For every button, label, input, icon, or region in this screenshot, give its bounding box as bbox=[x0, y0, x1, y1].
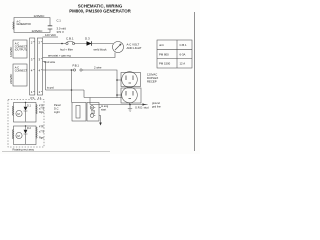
svg-text:(OUTPUT): (OUTPUT) bbox=[15, 49, 27, 52]
svg-text:Panel: Panel bbox=[54, 103, 61, 107]
exciter rect (upper) bbox=[14, 103, 37, 123]
ground bbox=[128, 105, 132, 112]
wire W5 (ground bus) bbox=[90, 98, 146, 105]
box A-C connect (lower) bbox=[13, 64, 27, 86]
border bottom faint bbox=[2, 151, 110, 153]
svg-text:weld block: weld block bbox=[94, 48, 108, 52]
winding left (upper) bbox=[12, 106, 13, 116]
generator stator box G1 bbox=[14, 18, 50, 33]
label C1 value bbox=[57, 19, 67, 34]
connector P1 strip bbox=[30, 38, 35, 95]
svg-text:P.B.1: P.B.1 bbox=[73, 64, 80, 68]
svg-text:2 wire: 2 wire bbox=[94, 66, 102, 70]
svg-text:370 V: 370 V bbox=[57, 30, 64, 34]
winding right F2 bbox=[36, 127, 37, 138]
rotating assy dashed box bbox=[8, 100, 44, 148]
svg-text:C.B.1: C.B.1 bbox=[180, 43, 187, 47]
receptacle outlet bottom bbox=[122, 87, 138, 103]
svg-text:RECEP: RECEP bbox=[147, 80, 157, 84]
label idle box bbox=[54, 103, 61, 114]
junction bbox=[71, 69, 73, 71]
svg-text:G.R.D. stud: G.R.D. stud bbox=[135, 105, 149, 109]
outlet ground stub bbox=[129, 103, 131, 105]
svg-text:Rgw: Rgw bbox=[39, 111, 44, 114]
svg-text:Light: Light bbox=[54, 110, 60, 114]
idle control box bbox=[72, 103, 86, 122]
svg-text:120VAC: 120VAC bbox=[34, 14, 46, 18]
border right bbox=[194, 12, 196, 151]
wire W1 main hot bbox=[43, 43, 114, 45]
winding left (lower) bbox=[12, 130, 13, 139]
svg-text:Rotating rect assy: Rotating rect assy bbox=[13, 147, 35, 151]
generator winding (left edge) bbox=[13, 22, 14, 30]
svg-text:PM 800: PM 800 bbox=[159, 52, 169, 56]
connector J1 strip bbox=[37, 38, 42, 95]
winding right F1 bbox=[36, 105, 37, 115]
wire W2 (J1 pin3 to voltmeter) bbox=[43, 53, 116, 58]
svg-text:GENERATOR: GENERATOR bbox=[17, 23, 32, 26]
wire W3 (J1 pin4 to outlet feeder) bbox=[43, 70, 118, 98]
label right of connector bbox=[101, 104, 109, 112]
svg-text:A-C: A-C bbox=[17, 20, 21, 23]
svg-text:gnd line: gnd line bbox=[152, 105, 161, 108]
svg-text:12 A: 12 A bbox=[180, 62, 186, 66]
svg-text:C.B.1: C.B.1 bbox=[66, 37, 74, 41]
svg-text:PM800, PM1500 GENERATOR: PM800, PM1500 GENERATOR bbox=[69, 9, 131, 14]
svg-text:240VAC: 240VAC bbox=[9, 74, 13, 84]
svg-text:AND LIGHT: AND LIGHT bbox=[127, 46, 142, 50]
table bbox=[157, 40, 192, 68]
svg-text:aerostat + gas reg: aerostat + gas reg bbox=[48, 53, 71, 57]
capacitor C1 bbox=[48, 26, 53, 29]
svg-text:to gnd: to gnd bbox=[47, 87, 54, 90]
arrow down engine lead bbox=[99, 116, 101, 124]
wire stub 120VAC bbox=[43, 36, 59, 38]
duplex receptacle body bbox=[121, 73, 141, 87]
svg-text:PM 1500: PM 1500 bbox=[159, 62, 171, 66]
outlet feeder taps bbox=[117, 80, 122, 95]
receptacle outlet top bbox=[122, 72, 138, 88]
generator inner label bbox=[17, 20, 32, 26]
arrow right bbox=[143, 103, 146, 105]
title bbox=[69, 4, 131, 14]
connector pin ticks bbox=[33, 42, 42, 92]
rotor rect (lower) bbox=[14, 126, 37, 145]
svg-text:D.3: D.3 bbox=[85, 37, 90, 41]
svg-text:D.2: D.2 bbox=[27, 127, 32, 130]
svg-text:C.1: C.1 bbox=[57, 19, 62, 23]
label at arrow bbox=[152, 102, 161, 108]
svg-text:6-3A: 6-3A bbox=[180, 52, 186, 56]
motor circle (upper) bbox=[16, 110, 22, 116]
svg-text:4TR: 4TR bbox=[39, 126, 44, 129]
label under W5 bbox=[91, 107, 96, 116]
label F2 bbox=[39, 126, 45, 140]
svg-text:to eng: to eng bbox=[101, 104, 109, 108]
label F1 bbox=[39, 104, 45, 114]
svg-text:CONNECT: CONNECT bbox=[15, 70, 28, 73]
svg-text:D.C: D.C bbox=[54, 107, 59, 111]
svg-text:Rgw: Rgw bbox=[39, 137, 44, 140]
label voltmeter bbox=[127, 43, 142, 51]
svg-text:hyd + filter: hyd + filter bbox=[60, 48, 73, 52]
label receptacle bbox=[147, 73, 158, 84]
diode D2 bbox=[24, 126, 28, 144]
wire W4 (switch branch down to outlet bottom) bbox=[43, 62, 123, 103]
connector block bbox=[87, 103, 99, 122]
junction bbox=[61, 43, 63, 45]
svg-text:120 VAC: 120 VAC bbox=[45, 33, 56, 37]
svg-text:D.1: D.1 bbox=[27, 105, 32, 108]
motor circle (lower) bbox=[16, 132, 22, 138]
svg-text:start: start bbox=[101, 108, 106, 112]
switch S1 bbox=[73, 69, 75, 71]
diode D3 bbox=[87, 41, 92, 46]
svg-text:x775: x775 bbox=[39, 131, 45, 134]
svg-text:120VAC: 120VAC bbox=[32, 29, 44, 33]
voltmeter M1 bbox=[113, 42, 124, 53]
circuit breaker CB1 bbox=[66, 42, 68, 44]
box A-C connect (upper) bbox=[13, 40, 27, 58]
svg-text:unit: unit bbox=[159, 43, 164, 47]
svg-text:120VAC: 120VAC bbox=[9, 47, 13, 57]
diode D1 bbox=[24, 103, 28, 122]
